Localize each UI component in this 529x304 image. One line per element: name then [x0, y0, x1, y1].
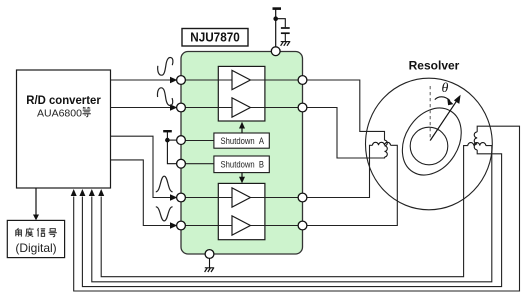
- svg-text:R/D converter: R/D converter: [26, 93, 101, 107]
- arrowhead fb1: [71, 189, 77, 196]
- arrowhead in1: [170, 77, 177, 83]
- wire R/D out2 to IN2: [111, 107, 172, 109]
- pulse symbol s3: [156, 176, 173, 192]
- op-amp A4: [232, 216, 250, 235]
- wire out2 to rotor coil bottom: [303, 108, 385, 159]
- terminal pin sdA: [177, 136, 186, 145]
- junction dot: [273, 16, 278, 21]
- wire R/D out1 to IN1: [111, 79, 172, 81]
- rotor coil L2 (horizontal, bumps up): [373, 142, 391, 145]
- terminal pin out3: [298, 193, 307, 202]
- glyph 号: [49, 229, 57, 237]
- terminal pin in1: [177, 76, 186, 85]
- R/D converter box: [17, 70, 111, 188]
- wire through amp2: [181, 107, 303, 109]
- wire through amp4: [181, 225, 303, 227]
- wire R/D out4 to IN4 (L-shape): [111, 160, 172, 226]
- shutdown A box: [214, 133, 269, 148]
- arrowhead fb4: [98, 189, 104, 196]
- svg-text:Shutdown B: Shutdown B: [221, 159, 265, 169]
- terminal pin out1: [298, 76, 307, 85]
- arrowhead in4: [170, 222, 177, 228]
- digital output box 角度信号(Digital): [7, 220, 64, 257]
- arrow shutdown B to amp bottom: [241, 173, 243, 178]
- glyph 信: [37, 228, 45, 237]
- amp block bottom (U1c/U1d): [218, 183, 265, 239]
- arrow shutdown A to amp top: [241, 127, 243, 133]
- arrowhead in3: [170, 194, 177, 200]
- glyph 度: [26, 228, 34, 237]
- rotor outer: [390, 97, 473, 186]
- wire shutdown B input: [181, 163, 214, 165]
- wire out3 to stator coil left: [303, 145, 373, 197]
- feedback wire 1 (outermost): coil L3 top to R/D: [74, 126, 520, 291]
- arrow R/D to digital box: [35, 188, 37, 216]
- glyph 角: [16, 228, 22, 237]
- label box NJU7870: [182, 29, 248, 47]
- svg-text:NJU7870: NJU7870: [190, 31, 240, 45]
- sine symbol s1: [158, 58, 173, 76]
- ground (IC bottom): [205, 258, 215, 272]
- rotor coil L1 (vertical, bumps right): [385, 140, 388, 157]
- feedback wire 4 (innermost): coil L4 left to R/D: [101, 146, 468, 277]
- terminal pin top: [271, 47, 280, 56]
- rotor angle arrow: [430, 100, 457, 141]
- shutdown B box: [214, 156, 269, 173]
- IC body NJU7870 (green): [181, 52, 303, 255]
- glyph 等 (in AUA6800等): [83, 107, 91, 117]
- sine symbol s2: [157, 88, 172, 106]
- terminal pin in4: [177, 221, 186, 230]
- feedback wire 2: coil L3 bottom to R/D: [82, 150, 501, 287]
- svg-text:(Digital): (Digital): [15, 241, 56, 255]
- wire out1 to rotor coil top: [303, 80, 385, 140]
- power symbol VDD (top): [273, 9, 286, 47]
- terminal pin out4: [298, 221, 307, 230]
- svg-text:Resolver: Resolver: [409, 59, 460, 73]
- wire shutdown A input: [181, 140, 214, 142]
- rotor inner circle: [410, 127, 448, 165]
- arrowhead in2: [170, 104, 177, 110]
- terminal pin out2: [298, 103, 307, 112]
- right coil L4 (horizontal, bumps up): [468, 143, 486, 146]
- op-amp A3: [232, 188, 250, 207]
- amp block top (U1a/U1b): [218, 66, 265, 121]
- wire stator coil to out4: [303, 145, 398, 225]
- pulse symbol s4: [156, 207, 173, 221]
- terminal pin in2: [177, 103, 186, 112]
- arrowhead fb2: [79, 189, 85, 196]
- capacitor C1: [281, 28, 290, 42]
- wire R/D out3 to IN3 (L-shape): [111, 136, 172, 197]
- power symbol (shutdown bias): [163, 131, 177, 164]
- terminal pin in3: [177, 193, 186, 202]
- wire through amp3: [181, 197, 303, 199]
- terminal pin sdB: [177, 159, 186, 168]
- svg-text:θ: θ: [442, 81, 449, 96]
- op-amp A2: [232, 98, 250, 117]
- feedback wire 3: coil L4 right to R/D: [92, 146, 492, 282]
- svg-text:Shutdown A: Shutdown A: [221, 136, 265, 146]
- arrowhead fb3: [89, 189, 95, 196]
- op-amp A1: [232, 70, 250, 89]
- junction dot (shutdown bias): [165, 138, 170, 143]
- right coil L3 (vertical, bumps left): [474, 132, 477, 150]
- ground (capacitor): [281, 42, 291, 46]
- terminal pin bottom: [205, 250, 214, 259]
- svg-text:AUA6800: AUA6800: [37, 108, 82, 120]
- theta arc arrow: [435, 97, 450, 101]
- Resolver body circle: [366, 78, 493, 210]
- wire through amp1: [181, 79, 303, 81]
- dashed reference line: [429, 86, 431, 141]
